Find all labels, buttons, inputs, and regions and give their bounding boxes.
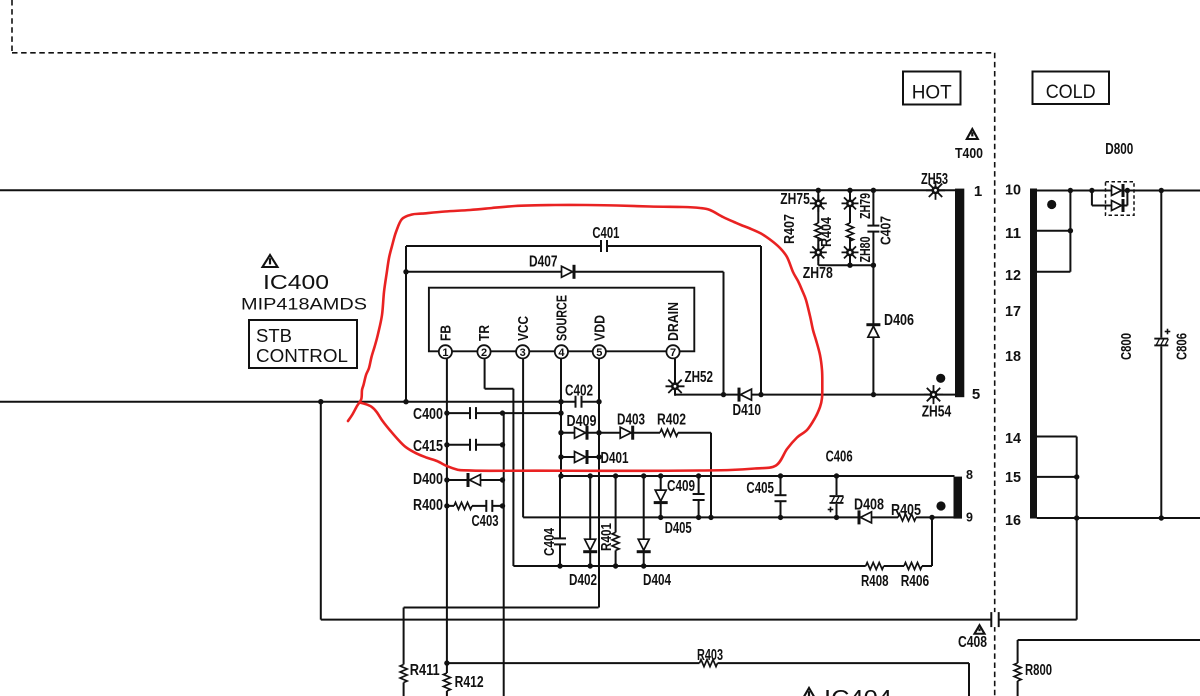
svg-text:C403: C403: [472, 513, 499, 530]
svg-text:14: 14: [1005, 430, 1022, 447]
svg-text:R400: R400: [413, 497, 443, 514]
svg-text:ZH53: ZH53: [921, 171, 948, 188]
svg-text:T400: T400: [955, 145, 983, 162]
svg-text:R403: R403: [697, 647, 723, 664]
svg-text:R411: R411: [410, 662, 440, 679]
svg-text:IC404: IC404: [824, 685, 892, 696]
svg-text:D409: D409: [567, 413, 597, 430]
svg-text:1: 1: [974, 183, 982, 200]
svg-text:R800: R800: [1025, 662, 1052, 679]
svg-text:R406: R406: [901, 573, 930, 590]
svg-text:ZH54: ZH54: [922, 404, 952, 421]
svg-text:C404: C404: [541, 527, 558, 556]
svg-text:COLD: COLD: [1046, 82, 1096, 103]
svg-text:D406: D406: [884, 312, 914, 329]
svg-text:16: 16: [1005, 512, 1021, 529]
svg-text:C408: C408: [958, 634, 987, 651]
svg-text:R408: R408: [861, 573, 889, 590]
svg-text:VDD: VDD: [593, 315, 609, 341]
svg-text:SOURCE: SOURCE: [555, 295, 571, 341]
svg-text:5: 5: [972, 386, 980, 403]
svg-text:D402: D402: [569, 572, 597, 589]
svg-text:2: 2: [481, 347, 487, 359]
svg-text:R404: R404: [818, 216, 835, 247]
svg-text:10: 10: [1005, 182, 1021, 199]
svg-text:12: 12: [1005, 267, 1021, 284]
svg-text:3: 3: [520, 347, 526, 359]
svg-text:D400: D400: [413, 471, 443, 488]
svg-text:HOT: HOT: [912, 83, 952, 104]
svg-text:IC400: IC400: [263, 272, 329, 294]
svg-text:R401: R401: [598, 523, 615, 551]
svg-text:C401: C401: [592, 225, 619, 242]
svg-text:ZH78: ZH78: [803, 265, 833, 282]
svg-text:C402: C402: [565, 383, 593, 400]
svg-text:D403: D403: [617, 412, 645, 429]
svg-text:C406: C406: [826, 449, 853, 466]
svg-text:ZH79: ZH79: [857, 193, 874, 219]
svg-text:D401: D401: [601, 450, 629, 467]
svg-text:4: 4: [558, 347, 565, 359]
svg-text:5: 5: [596, 347, 602, 359]
svg-text:CONTROL: CONTROL: [256, 346, 348, 366]
svg-text:DRAIN: DRAIN: [666, 302, 682, 341]
svg-text:C409: C409: [667, 478, 695, 495]
svg-text:D410: D410: [733, 402, 762, 419]
svg-text:R407: R407: [781, 214, 798, 244]
svg-text:D405: D405: [665, 520, 692, 537]
svg-text:R402: R402: [657, 412, 686, 429]
svg-text:R405: R405: [891, 502, 921, 519]
svg-text:C400: C400: [413, 406, 443, 423]
svg-text:8: 8: [966, 468, 973, 482]
svg-text:D404: D404: [643, 572, 671, 589]
svg-text:ZH75: ZH75: [780, 191, 810, 208]
svg-text:15: 15: [1005, 469, 1021, 486]
svg-text:C405: C405: [746, 480, 774, 497]
svg-text:C415: C415: [413, 438, 443, 455]
svg-text:1: 1: [442, 347, 448, 359]
svg-text:11: 11: [1005, 225, 1021, 242]
svg-text:VCC: VCC: [516, 316, 532, 341]
svg-text:ZH52: ZH52: [685, 369, 714, 386]
svg-text:ZH80: ZH80: [857, 237, 874, 263]
svg-text:R412: R412: [455, 674, 484, 691]
svg-text:FB: FB: [439, 325, 455, 341]
svg-text:D407: D407: [529, 254, 558, 271]
svg-text:MIP418AMDS: MIP418AMDS: [241, 296, 367, 314]
svg-text:D800: D800: [1105, 141, 1133, 158]
svg-text:C800: C800: [1118, 333, 1135, 360]
svg-text:STB: STB: [256, 326, 292, 346]
svg-text:C407: C407: [878, 216, 895, 245]
svg-text:7: 7: [670, 347, 676, 359]
svg-text:D408: D408: [854, 497, 884, 514]
svg-text:TR: TR: [477, 325, 493, 341]
svg-text:18: 18: [1005, 348, 1021, 365]
svg-text:17: 17: [1005, 303, 1021, 320]
svg-text:9: 9: [966, 511, 973, 525]
svg-text:C806: C806: [1174, 333, 1191, 360]
